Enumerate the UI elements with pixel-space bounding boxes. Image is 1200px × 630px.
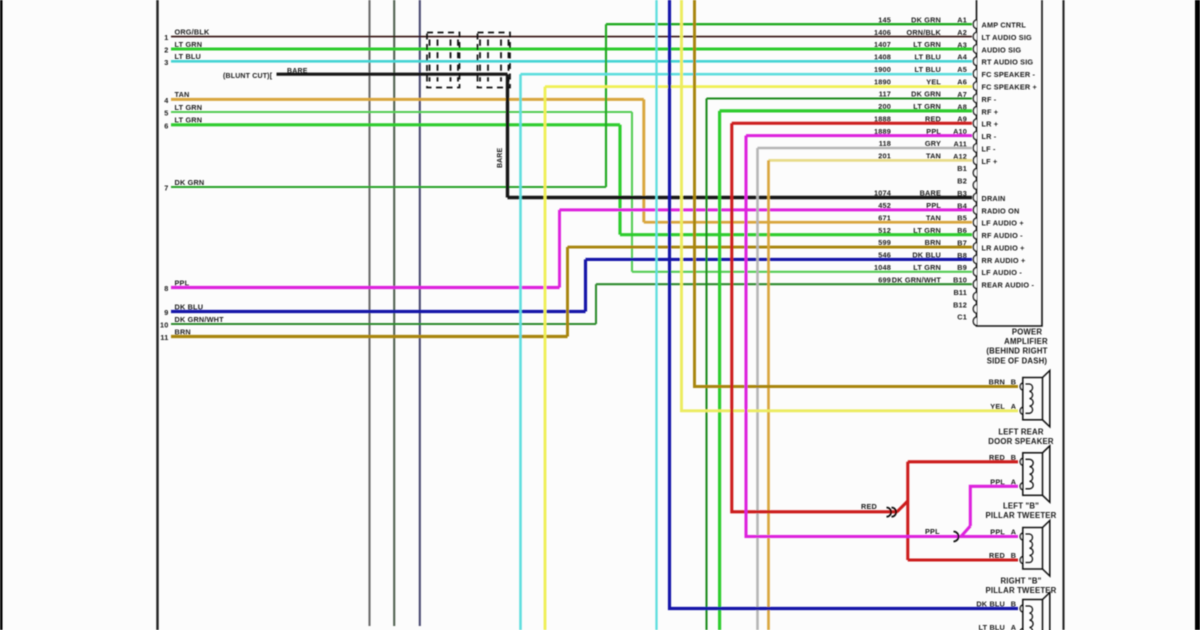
connector pin A10 bump xyxy=(973,131,976,140)
svg-text:B: B xyxy=(1011,453,1016,462)
connector pin A7 bump xyxy=(973,94,976,103)
svg-text:PPL: PPL xyxy=(926,201,941,210)
svg-text:DK GRN: DK GRN xyxy=(175,178,205,187)
svg-text:GRY: GRY xyxy=(925,139,941,148)
svg-text:B: B xyxy=(1011,600,1016,609)
connector pin B3 bump xyxy=(973,193,976,202)
wire riser DK GRN wire7 to A1 xyxy=(605,24,607,187)
svg-text:C1: C1 xyxy=(957,313,967,322)
wire pin B10 DK GRN/WHT xyxy=(596,283,972,285)
svg-text:B1: B1 xyxy=(957,164,967,173)
svg-text:TAN: TAN xyxy=(926,152,941,161)
svg-text:9: 9 xyxy=(164,308,168,317)
wire pin B9 LT GRN xyxy=(632,271,972,273)
svg-text:11: 11 xyxy=(160,333,168,342)
svg-text:BRN: BRN xyxy=(989,378,1005,387)
svg-text:DRAIN: DRAIN xyxy=(982,194,1006,203)
svg-text:LT GRN: LT GRN xyxy=(913,263,941,272)
wire 5 LT GRN xyxy=(171,111,632,113)
wire 7 DK GRN xyxy=(171,186,606,188)
svg-text:RF -: RF - xyxy=(982,95,997,104)
svg-text:B4: B4 xyxy=(957,201,967,210)
svg-text:1406: 1406 xyxy=(874,28,891,37)
svg-text:1890: 1890 xyxy=(874,77,891,86)
svg-text:BARE: BARE xyxy=(497,148,504,168)
wire riser PPL wire8 to B4 xyxy=(558,210,561,288)
connector pin A1 bump xyxy=(973,20,976,29)
svg-text:2: 2 xyxy=(164,46,168,55)
svg-text:1889: 1889 xyxy=(874,127,891,136)
wire pin A5 LT BLU xyxy=(521,73,973,76)
svg-text:LT BLU: LT BLU xyxy=(915,65,941,74)
wire riser DK BLU wire9 to B8 xyxy=(584,259,587,311)
svg-text:7: 7 xyxy=(164,184,168,193)
wire pin B7 BRN xyxy=(568,246,973,249)
connector pin C1 bump xyxy=(973,317,976,326)
svg-text:DK GRN/WHT: DK GRN/WHT xyxy=(892,275,942,284)
svg-text:1408: 1408 xyxy=(874,53,891,62)
svg-text:LT GRN: LT GRN xyxy=(913,40,941,49)
wire pin A1 DK GRN xyxy=(606,23,972,25)
svg-text:A4: A4 xyxy=(957,53,967,62)
connector pin B1 bump xyxy=(973,169,976,178)
wire 9 DK BLU xyxy=(171,310,586,313)
wire RED to left pillar tweeter B xyxy=(908,460,1018,463)
svg-text:ORN/BLK: ORN/BLK xyxy=(907,28,942,37)
svg-text:RIGHT "B": RIGHT "B" xyxy=(1000,577,1041,586)
wire 6 LT GRN xyxy=(171,123,620,126)
svg-text:DK GRN/WHT: DK GRN/WHT xyxy=(175,315,225,324)
svg-text:RADIO ON: RADIO ON xyxy=(982,206,1020,215)
svg-text:A3: A3 xyxy=(957,40,967,49)
wire vertical GRY off-page xyxy=(368,0,370,626)
svg-text:TAN: TAN xyxy=(926,213,941,222)
svg-text:DK BLU: DK BLU xyxy=(912,251,941,260)
svg-text:10: 10 xyxy=(160,321,168,330)
svg-text:DOOR SPEAKER: DOOR SPEAKER xyxy=(988,437,1054,446)
inline connector dashed box C1 xyxy=(427,33,460,88)
splice S2 on PPL wire xyxy=(954,532,959,542)
wire riser LT GRN wire5 to B9 xyxy=(631,112,633,272)
svg-text:PPL: PPL xyxy=(926,127,941,136)
connector pin A3 bump xyxy=(973,45,976,54)
svg-text:1048: 1048 xyxy=(874,263,891,272)
svg-text:LT GRN: LT GRN xyxy=(913,226,941,235)
svg-text:TAN: TAN xyxy=(175,90,190,99)
svg-text:AMPLIFIER: AMPLIFIER xyxy=(1004,337,1048,346)
svg-text:RF +: RF + xyxy=(982,107,999,116)
svg-text:118: 118 xyxy=(879,139,891,148)
wire dropper LT BLU to speaker4 xyxy=(655,0,657,630)
wire riser BRN wire11 to B7 xyxy=(566,247,569,336)
connector pin A9 bump xyxy=(973,119,976,128)
svg-text:B11: B11 xyxy=(953,288,967,297)
svg-text:BARE: BARE xyxy=(287,68,308,75)
svg-text:6: 6 xyxy=(164,121,168,130)
svg-text:LT BLU: LT BLU xyxy=(175,52,201,61)
svg-text:LEFT "B": LEFT "B" xyxy=(1003,502,1039,511)
svg-text:B5: B5 xyxy=(957,214,967,223)
wire pin B5 TAN xyxy=(644,221,972,224)
svg-text:LT AUDIO SIG: LT AUDIO SIG xyxy=(982,33,1033,42)
wire 8 PPL xyxy=(171,286,560,289)
svg-text:LF AUDIO -: LF AUDIO - xyxy=(982,268,1023,277)
svg-text:RED: RED xyxy=(925,114,941,123)
wire pin A12 TAN xyxy=(769,159,973,162)
svg-text:B12: B12 xyxy=(953,300,967,309)
svg-text:A: A xyxy=(1011,478,1017,487)
connector pin A8 bump xyxy=(973,107,976,116)
frame right border xyxy=(1062,0,1064,630)
svg-text:699: 699 xyxy=(878,275,891,284)
connector pin A11 bump xyxy=(973,144,976,153)
svg-text:8: 8 xyxy=(164,284,168,293)
wire PPL splice diagonal jog xyxy=(961,526,970,537)
speaker left rear door xyxy=(1020,371,1050,427)
wire RED tweeter trunk xyxy=(906,462,909,560)
svg-text:A9: A9 xyxy=(957,115,967,124)
svg-text:LEFT REAR: LEFT REAR xyxy=(998,428,1044,437)
svg-text:RF AUDIO -: RF AUDIO - xyxy=(982,231,1024,240)
svg-text:145: 145 xyxy=(878,15,891,24)
svg-text:LF AUDIO +: LF AUDIO + xyxy=(982,219,1024,228)
wire RED A9 riser and run to splice xyxy=(732,123,898,512)
svg-text:B10: B10 xyxy=(953,276,967,285)
svg-text:B6: B6 xyxy=(957,226,967,235)
wire riser LT GRN wire6 to B6 xyxy=(618,125,621,235)
svg-text:AMP CNTRL: AMP CNTRL xyxy=(982,21,1027,30)
wire vertical DK GRN off-page xyxy=(393,0,395,626)
svg-text:BRN: BRN xyxy=(925,238,941,247)
connector pin B5 bump xyxy=(973,218,976,227)
wire pin A7 DK GRN xyxy=(707,97,973,99)
svg-text:PPL: PPL xyxy=(990,528,1005,537)
svg-text:B: B xyxy=(1011,378,1016,387)
wire pin B8 DK BLU xyxy=(586,258,973,261)
wire pin A8 LT GRN xyxy=(720,109,972,112)
svg-text:A12: A12 xyxy=(953,152,967,161)
connector pin A2 bump xyxy=(973,32,976,41)
svg-text:B: B xyxy=(1011,551,1016,560)
svg-text:AUDIO SIG: AUDIO SIG xyxy=(982,45,1022,54)
svg-text:PPL: PPL xyxy=(990,478,1005,487)
wire pin A9 RED xyxy=(732,122,972,125)
connector pin A5 bump xyxy=(973,69,976,78)
speaker left pillar tweeter xyxy=(1020,446,1050,503)
svg-text:BRN: BRN xyxy=(175,327,191,336)
svg-text:A7: A7 xyxy=(957,90,967,99)
svg-text:PILLAR TWEETER: PILLAR TWEETER xyxy=(986,586,1057,595)
wire dropper DK GRN A7 off-page xyxy=(705,98,707,630)
svg-text:A1: A1 xyxy=(957,16,967,25)
svg-text:LT BLU: LT BLU xyxy=(979,623,1005,630)
svg-text:512: 512 xyxy=(878,226,891,235)
wire riser DK GRN/WHT wire10 to B10 xyxy=(595,284,597,324)
frame left border xyxy=(156,0,158,630)
svg-text:1900: 1900 xyxy=(874,65,891,74)
svg-text:(BLUNT CUT)[: (BLUNT CUT)[ xyxy=(223,73,273,80)
connector pin B10 bump xyxy=(973,280,976,289)
wire 1 ORG/BLK to pin A2 xyxy=(171,36,972,38)
svg-text:A: A xyxy=(1011,623,1017,630)
inline connector dashed box C2 xyxy=(478,33,511,88)
inline connector C1 pin strokes xyxy=(429,40,431,46)
wire 4 TAN xyxy=(171,98,644,101)
svg-text:POWER: POWER xyxy=(1012,328,1043,337)
svg-text:452: 452 xyxy=(878,201,891,210)
svg-text:REAR AUDIO -: REAR AUDIO - xyxy=(982,281,1035,290)
svg-text:(BEHIND RIGHT: (BEHIND RIGHT xyxy=(986,347,1047,356)
svg-text:SIDE OF DASH): SIDE OF DASH) xyxy=(987,356,1048,365)
svg-text:B2: B2 xyxy=(957,177,967,186)
wire DK BLU to right rear speaker xyxy=(670,0,1019,609)
svg-text:RED: RED xyxy=(861,502,877,511)
wire dropper YEL A6 off-page xyxy=(544,87,547,630)
connector pin B6 bump xyxy=(973,230,976,239)
connector pin B8 bump xyxy=(973,255,976,264)
connector pin A12 bump xyxy=(973,156,976,165)
svg-text:A: A xyxy=(1011,402,1017,411)
svg-text:1074: 1074 xyxy=(874,189,892,198)
svg-text:YEL: YEL xyxy=(926,77,941,86)
connector pin B12 bump xyxy=(973,305,976,314)
wire 3 LT BLU to pin A4 xyxy=(171,60,972,63)
wire dropper GRY A11 off-page xyxy=(756,148,759,630)
wire pin B6 LT GRN xyxy=(620,233,972,236)
wire dropper LT BLU A5 off-page xyxy=(519,74,522,630)
svg-text:PILLAR TWEETER: PILLAR TWEETER xyxy=(986,511,1057,520)
svg-text:A10: A10 xyxy=(953,127,967,136)
wire PPL branch to left pillar tweeter A xyxy=(970,486,1018,526)
svg-text:PPL: PPL xyxy=(925,527,940,536)
wire pin A11 GRY xyxy=(758,147,973,150)
connector pin B11 bump xyxy=(973,292,976,301)
wire vertical DK BLU off-page xyxy=(419,0,421,626)
wire pin B4 PPL xyxy=(560,208,973,211)
wire 11 BRN xyxy=(171,335,568,338)
svg-text:LR +: LR + xyxy=(982,120,999,129)
wire YEL to left rear door speaker A xyxy=(682,0,1019,411)
svg-text:PPL: PPL xyxy=(175,278,190,287)
svg-text:3: 3 xyxy=(164,58,168,67)
wire pin B3 DRAIN BARE xyxy=(508,196,973,199)
svg-text:FC SPEAKER -: FC SPEAKER - xyxy=(982,70,1036,79)
page right black bar xyxy=(1195,0,1200,630)
svg-text:DK BLU: DK BLU xyxy=(976,600,1005,609)
svg-text:RED: RED xyxy=(989,453,1005,462)
wire pin A6 YEL xyxy=(545,85,972,88)
connector pin B9 bump xyxy=(973,268,976,277)
page left black bar xyxy=(0,0,3,630)
svg-text:546: 546 xyxy=(878,251,891,260)
wire BARE blunt cut segment xyxy=(277,73,508,76)
svg-text:LT GRN: LT GRN xyxy=(175,116,203,125)
wire dropper LT GRN A8 off-page xyxy=(718,111,721,630)
svg-text:A6: A6 xyxy=(957,78,967,87)
svg-text:117: 117 xyxy=(879,90,891,99)
svg-text:YEL: YEL xyxy=(990,402,1005,411)
svg-text:LT GRN: LT GRN xyxy=(175,103,203,112)
wire PPL A10 riser and run to tweeter xyxy=(746,136,1018,537)
svg-text:B9: B9 xyxy=(957,263,967,272)
svg-text:ORG/BLK: ORG/BLK xyxy=(175,27,210,36)
svg-text:A11: A11 xyxy=(953,139,967,148)
svg-text:LT BLU: LT BLU xyxy=(915,53,941,62)
svg-text:LR AUDIO +: LR AUDIO + xyxy=(982,243,1025,252)
radio connector box outline xyxy=(977,0,1043,326)
connector pin A6 bump xyxy=(973,82,976,91)
svg-text:RED: RED xyxy=(989,551,1005,560)
svg-text:LR -: LR - xyxy=(982,132,997,141)
splice S1 on RED wire xyxy=(887,508,892,517)
wire BRN to left rear door speaker B xyxy=(695,0,1019,387)
svg-text:DK BLU: DK BLU xyxy=(175,302,204,311)
wire riser TAN wire4 to B5 xyxy=(642,99,645,222)
speaker right rear door xyxy=(1020,593,1050,630)
connector pin B2 bump xyxy=(973,181,976,190)
wire dropper TAN A12 off-page xyxy=(767,160,770,630)
svg-text:LF -: LF - xyxy=(982,144,996,153)
inline connector C2 pin strokes xyxy=(479,40,481,46)
svg-text:B8: B8 xyxy=(957,251,967,260)
svg-text:1407: 1407 xyxy=(874,40,891,49)
wire pin A10 PPL xyxy=(746,134,972,137)
svg-text:A8: A8 xyxy=(957,102,967,111)
svg-text:LT GRN: LT GRN xyxy=(175,40,203,49)
svg-text:A5: A5 xyxy=(957,65,967,74)
svg-text:DK GRN: DK GRN xyxy=(911,90,941,99)
svg-text:201: 201 xyxy=(878,152,891,161)
svg-text:RR AUDIO +: RR AUDIO + xyxy=(982,256,1026,265)
svg-text:RT AUDIO SIG: RT AUDIO SIG xyxy=(982,58,1034,67)
svg-text:1888: 1888 xyxy=(874,114,891,123)
svg-text:B3: B3 xyxy=(957,189,967,198)
svg-text:A2: A2 xyxy=(957,28,967,37)
wire 10 DK GRN/WHT xyxy=(171,323,596,325)
wire RED to right pillar tweeter B xyxy=(908,558,1018,561)
connector pin A4 bump xyxy=(973,57,976,66)
speaker right pillar tweeter xyxy=(1020,521,1050,577)
svg-text:1: 1 xyxy=(164,33,168,42)
svg-text:200: 200 xyxy=(878,102,891,111)
svg-text:599: 599 xyxy=(878,238,891,247)
wire RED splice diagonal jog xyxy=(897,501,908,512)
svg-text:BARE: BARE xyxy=(920,189,941,198)
connector pin B4 bump xyxy=(973,206,976,215)
svg-text:B7: B7 xyxy=(957,238,967,247)
svg-text:671: 671 xyxy=(878,213,891,222)
wire 2 LT GRN to pin A3 xyxy=(171,48,972,51)
wire riser BARE xyxy=(506,74,509,197)
svg-text:DK GRN: DK GRN xyxy=(911,15,941,24)
svg-text:FC SPEAKER +: FC SPEAKER + xyxy=(982,83,1037,92)
connector pin B7 bump xyxy=(973,243,976,252)
svg-text:5: 5 xyxy=(164,109,168,118)
svg-text:A: A xyxy=(1011,528,1017,537)
svg-text:LF +: LF + xyxy=(982,157,998,166)
svg-text:LT GRN: LT GRN xyxy=(913,102,941,111)
